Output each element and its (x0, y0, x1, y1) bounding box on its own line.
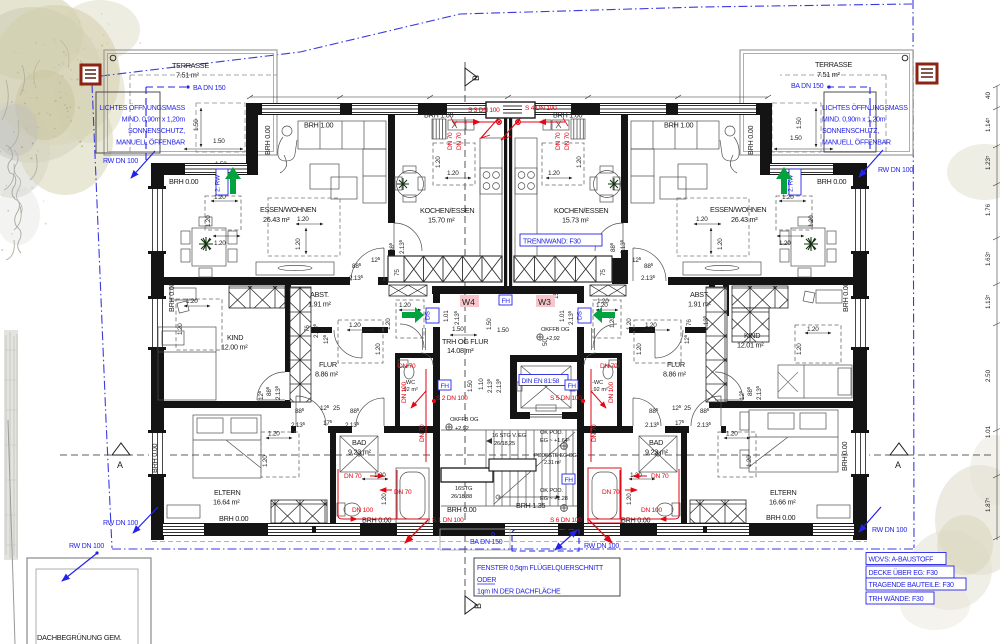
svg-text:1.23⁵: 1.23⁵ (985, 155, 992, 170)
svg-text:DN 70: DN 70 (447, 132, 454, 150)
bathtub left (396, 468, 429, 523)
door arc BAD right (633, 398, 661, 426)
dims W3 (553, 292, 616, 328)
svg-text:DN 70: DN 70 (555, 132, 562, 150)
svg-text:ABST.: ABST. (310, 290, 329, 299)
svg-text:1.91 m²: 1.91 m² (308, 300, 332, 309)
sofa left (298, 121, 386, 203)
wall ABST right vertical (723, 285, 729, 316)
svg-text:1qm IN DER DACHFLÄCHE: 1qm IN DER DACHFLÄCHE (477, 588, 561, 596)
elevator car (517, 366, 575, 411)
svg-text:1.50: 1.50 (213, 138, 225, 145)
svg-text:BRH 1.00: BRH 1.00 (424, 111, 453, 120)
wardrobe ELTERN left (271, 500, 327, 523)
svg-text:LICHTES ÖFFNUNGSMASS: LICHTES ÖFFNUNGSMASS (99, 104, 185, 112)
door arc kitchen right (595, 223, 623, 251)
svg-text:WDVS: A-BAUSTOFF: WDVS: A-BAUSTOFF (869, 557, 934, 564)
svg-text:1.20: 1.20 (626, 318, 633, 330)
svg-text:1.20: 1.20 (186, 298, 198, 305)
svg-text:26/18,25: 26/18,25 (494, 441, 515, 447)
DIN EN 81:58 box (519, 375, 568, 386)
sideboard left (256, 262, 334, 275)
svg-text:1.20: 1.20 (262, 455, 269, 467)
W4 highlight (460, 295, 479, 307)
svg-text:1.76: 1.76 (985, 203, 992, 216)
wardrobe ELTERN right (690, 500, 746, 523)
svg-text:ELTERN: ELTERN (214, 488, 240, 497)
svg-text:OKFFB OG: OKFFB OG (541, 327, 570, 333)
dims W4 (432, 287, 509, 334)
dims door ABST left (304, 323, 330, 344)
hedge left edge (4, 330, 18, 560)
dim bath right (626, 472, 655, 505)
svg-text:2.50: 2.50 (985, 369, 992, 382)
dresser ELTERN left (167, 505, 200, 518)
dim box FLUR right (634, 320, 681, 363)
section line A-A (60, 454, 992, 456)
wall top-left side (151, 163, 258, 175)
svg-text:KOCHEN/ESSEN: KOCHEN/ESSEN (420, 206, 474, 215)
railing crosshatch right (514, 256, 612, 282)
wall top-right side (760, 163, 867, 175)
svg-text:BRH 0.00: BRH 0.00 (362, 516, 391, 525)
svg-text:1.20: 1.20 (214, 240, 226, 247)
svg-text:BA DN 150: BA DN 150 (470, 539, 503, 546)
svg-text:S 2 DN 100: S 2 DN 100 (436, 395, 468, 402)
RW DN 100 top-right (859, 150, 913, 177)
dim box entry right (593, 300, 633, 338)
svg-text:15.70 m²: 15.70 m² (428, 216, 455, 225)
svg-text:1.50: 1.50 (486, 318, 493, 330)
svg-text:1.20: 1.20 (726, 431, 738, 438)
RW DN 100 bottom-left a (103, 507, 158, 533)
tree bottom-right (900, 435, 1000, 630)
tree right edge (947, 144, 1000, 200)
svg-text:FH: FH (502, 298, 511, 305)
svg-text:BRH 0.00: BRH 0.00 (169, 177, 198, 186)
svg-text:ESSEN/WOHNEN: ESSEN/WOHNEN (710, 205, 766, 214)
svg-text:W3: W3 (538, 297, 551, 307)
svg-text:TERRASSE: TERRASSE (815, 60, 852, 69)
svg-text:FLUR: FLUR (667, 360, 685, 369)
svg-text:1.20: 1.20 (205, 215, 212, 227)
TRENNWAND box (520, 234, 602, 246)
svg-text:DN 70: DN 70 (419, 424, 426, 442)
svg-text:1.20: 1.20 (435, 156, 442, 168)
svg-text:25: 25 (684, 405, 691, 412)
dims door living left (349, 256, 381, 282)
svg-text:1.20: 1.20 (548, 170, 560, 177)
toilet right (657, 503, 680, 516)
dims door KIND left (257, 385, 282, 400)
red pipes bath left (338, 469, 430, 543)
svg-text:S 4 DN 100: S 4 DN 100 (525, 105, 557, 112)
svg-text:FLUR: FLUR (319, 360, 337, 369)
entrance canopy below (440, 529, 510, 550)
wall core top (432, 286, 584, 294)
dachbegruenung rect bottom-left (8, 420, 151, 644)
red riser S5 right (581, 369, 606, 462)
svg-text:76: 76 (304, 325, 311, 332)
desk KIND left (170, 288, 196, 313)
dining set right (780, 217, 836, 277)
green arrow right-top (776, 167, 792, 194)
svg-text:1.20: 1.20 (626, 493, 633, 505)
svg-text:1.91 m²: 1.91 m² (688, 300, 712, 309)
door arc entry W4 (400, 324, 426, 350)
svg-text:1.20: 1.20 (576, 156, 583, 168)
door arc ELTERN right (691, 396, 721, 426)
sideboard right (683, 262, 761, 275)
dim box ELTERN left (261, 431, 299, 478)
svg-text:A: A (117, 460, 123, 470)
dims door kitchen right (609, 239, 627, 254)
dresser ELTERN right (817, 505, 850, 518)
terrace right (740, 50, 913, 155)
section marker A left (112, 443, 130, 470)
kitchen table right (590, 166, 621, 202)
BA DN 150 right (791, 83, 870, 150)
section line B (464, 62, 466, 608)
svg-text:1.20: 1.20 (746, 455, 753, 467)
svg-text:DIN EN 81:58: DIN EN 81:58 (522, 378, 560, 385)
svg-text:26.43 m²: 26.43 m² (263, 215, 290, 224)
svg-text:1.20: 1.20 (447, 170, 459, 177)
svg-text:8.86 m²: 8.86 m² (663, 370, 687, 379)
svg-text:76: 76 (686, 319, 693, 326)
svg-text:1.50: 1.50 (497, 327, 509, 334)
wall H1 left (164, 277, 350, 285)
svg-text:BRH 1.00: BRH 1.00 (664, 121, 693, 130)
svg-text:26.43 m²: 26.43 m² (731, 215, 758, 224)
svg-text:RW DN 100: RW DN 100 (69, 543, 104, 550)
RW DN 100 bottom-center (555, 530, 619, 550)
wall ABST left (311, 327, 332, 333)
svg-text:BRH 0.00: BRH 0.00 (621, 516, 650, 525)
desk KIND right (803, 290, 842, 303)
svg-text:RW DN 100: RW DN 100 (872, 527, 907, 534)
LICHTES block left (99, 104, 185, 147)
svg-text:9.23 m²: 9.23 m² (645, 448, 669, 457)
coffee tables left (310, 164, 357, 199)
svg-text:1.20: 1.20 (375, 343, 382, 355)
svg-text:16STG: 16STG (455, 486, 473, 492)
svg-text:DN 70: DN 70 (651, 473, 669, 480)
windows left wall (148, 186, 166, 477)
svg-text:SONNENSCHUTZ,: SONNENSCHUTZ, (822, 128, 879, 135)
window terrace door left (182, 163, 250, 175)
svg-text:FH: FH (568, 383, 577, 390)
stairs (441, 430, 577, 506)
green arrow left-center (402, 307, 424, 323)
svg-text:.92 m²: .92 m² (592, 387, 608, 393)
wall kitchen right (621, 115, 628, 223)
svg-text:1.20: 1.20 (385, 318, 392, 330)
RW DN 100 bottom-right (859, 507, 907, 534)
sofa right (631, 121, 719, 203)
svg-text:1.20: 1.20 (297, 216, 309, 223)
dim box kitchen right (542, 143, 584, 185)
svg-text:DN 70: DN 70 (602, 489, 620, 496)
room labels (213, 205, 796, 507)
svg-text:1.20: 1.20 (696, 216, 708, 223)
svg-text:ELTERN: ELTERN (770, 488, 796, 497)
hatch box right entry (590, 285, 626, 296)
bathtub right (588, 468, 621, 523)
WDVS boxes (866, 553, 966, 605)
svg-text:B: B (473, 603, 483, 609)
door arc entry W3 (592, 324, 618, 350)
dim box FLUR left (338, 320, 383, 363)
railing crosshatch left (229, 256, 788, 523)
wall center party (Trennwand) (504, 115, 507, 286)
door arc living-hall left (351, 248, 384, 281)
svg-text:1.20: 1.20 (349, 322, 361, 329)
tree top-left (0, 0, 140, 260)
svg-text:1.20: 1.20 (399, 302, 411, 309)
dim box ELTERN right (718, 431, 756, 478)
svg-text:15.73 m²: 15.73 m² (562, 216, 589, 225)
dims door living right (632, 256, 656, 282)
FENSTER box (474, 558, 620, 596)
wall exterior bottom (151, 523, 867, 536)
svg-text:B: B (471, 75, 481, 81)
wall KIND/ELTERN right (709, 401, 867, 408)
shower left (340, 436, 378, 472)
door arc KIND right (715, 372, 743, 400)
windows right wall (851, 186, 869, 477)
svg-text:BRH 0.00: BRH 0.00 (167, 283, 176, 312)
wall KIND/ELTERN left (151, 401, 291, 408)
svg-text:16 STG V. EG: 16 STG V. EG (492, 433, 527, 439)
svg-text:1.50: 1.50 (790, 135, 802, 142)
svg-text:TRH WÄNDE: F30: TRH WÄNDE: F30 (869, 595, 924, 603)
svg-text:1.01: 1.01 (443, 310, 450, 322)
svg-text:1.20: 1.20 (597, 298, 609, 305)
closet KIND right (732, 286, 788, 308)
svg-text:ODER: ODER (477, 577, 496, 584)
wall KIND/FLUR right (709, 285, 715, 372)
svg-text:RW DN 100: RW DN 100 (103, 158, 138, 165)
svg-text:BRH 0.00: BRH 0.00 (817, 177, 846, 186)
svg-text:LICHTES ÖFFNUNGSMASS: LICHTES ÖFFNUNGSMASS (822, 104, 908, 112)
wall bump-right vertical (760, 103, 772, 175)
dim box KIND left (176, 298, 222, 350)
svg-text:75: 75 (600, 269, 607, 276)
property boundary right (913, 0, 914, 548)
svg-text:A: A (895, 460, 901, 470)
svg-text:DS: DS (425, 310, 432, 320)
svg-text:W4: W4 (462, 297, 475, 307)
svg-text:1.13⁵: 1.13⁵ (985, 294, 992, 309)
LICHTES block right (822, 104, 908, 147)
svg-text:16.66 m²: 16.66 m² (769, 498, 796, 507)
svg-text:DN 100: DN 100 (641, 507, 662, 514)
svg-text:25: 25 (333, 405, 340, 412)
svg-text:DS: DS (577, 310, 584, 320)
dim box living-left center (268, 198, 340, 256)
svg-text:50: 50 (542, 339, 549, 346)
wall kitchen left (388, 115, 395, 223)
svg-text:BRH 1.00: BRH 1.00 (304, 121, 333, 130)
svg-text:ESSEN/WOHNEN: ESSEN/WOHNEN (260, 205, 316, 214)
svg-text:BRH 0.00: BRH 0.00 (263, 126, 272, 155)
green arrow left-top (225, 167, 241, 194)
svg-text:16.64 m²: 16.64 m² (213, 498, 240, 507)
svg-text:1.20: 1.20 (636, 343, 643, 355)
red pipes top center (451, 114, 568, 140)
windows bottom wall (160, 523, 857, 536)
dim box living-right top (776, 194, 815, 247)
svg-text:1.14⁵: 1.14⁵ (985, 117, 992, 132)
gully symbol left (81, 65, 100, 84)
shaft box top center (486, 102, 535, 118)
svg-text:75: 75 (394, 269, 401, 276)
door arc ABST left (334, 330, 362, 358)
svg-text:BA DN 150: BA DN 150 (791, 83, 824, 90)
wall ABST right (629, 327, 655, 333)
red riser S2 left (411, 369, 436, 462)
svg-text:DN 70: DN 70 (344, 473, 362, 480)
section marker A right (890, 443, 908, 470)
wall KIND/FLUR left (285, 285, 291, 372)
dims doors bath row left (291, 404, 360, 429)
dims door ABST right (683, 315, 710, 344)
wall core right vertical (577, 294, 584, 303)
property boundary top (101, 4, 912, 76)
svg-text:BA DN 150: BA DN 150 (193, 85, 226, 92)
svg-text:DACHBEGRÜNUNG GEM.: DACHBEGRÜNUNG GEM. (37, 633, 122, 642)
property boundary bottom (112, 548, 914, 550)
coffee tables right (660, 164, 707, 199)
svg-text:DECKE ÜBER EG: F30: DECKE ÜBER EG: F30 (869, 569, 938, 577)
svg-text:RW DN 100: RW DN 100 (103, 520, 138, 527)
svg-text:1.20: 1.20 (796, 343, 803, 355)
kitchen counter right (515, 119, 585, 256)
right edge dimension chain (993, 84, 1000, 540)
svg-text:TRENNWAND: F30: TRENNWAND: F30 (523, 239, 581, 246)
window terrace door right (767, 163, 836, 175)
svg-text:MIND. 0,90m x 1,20m: MIND. 0,90m x 1,20m (122, 117, 186, 124)
wall H1 right (668, 277, 854, 285)
WC left fixtures (398, 353, 433, 379)
svg-text:OK POD.: OK POD. (540, 488, 563, 494)
plant star right dining (804, 237, 818, 251)
svg-text:1.20: 1.20 (807, 326, 819, 333)
top dim line (247, 95, 771, 99)
WC right fixtures (584, 353, 619, 379)
svg-text:12.00 m²: 12.00 m² (221, 343, 248, 352)
toilet left (337, 503, 360, 516)
svg-text:RW DN 100: RW DN 100 (878, 167, 913, 174)
wall ELTERN/BAD left (330, 433, 336, 523)
svg-text:-WC: -WC (592, 380, 603, 386)
FH boxes (438, 295, 578, 484)
roof window bracket left (96, 92, 160, 153)
svg-text:1.50: 1.50 (193, 119, 200, 131)
svg-text:S 1 DN 100: S 1 DN 100 (432, 517, 464, 524)
wall core left vertical (433, 294, 440, 303)
svg-text:1.01: 1.01 (559, 310, 566, 322)
dim box entry left (385, 300, 424, 338)
green arrow right-center (593, 307, 615, 323)
svg-text:BAD: BAD (352, 438, 366, 447)
2.RW boxes (215, 169, 802, 195)
dim box kitchen left (433, 143, 475, 185)
svg-text:1.63⁵: 1.63⁵ (985, 251, 992, 266)
svg-text:BRH 1.00: BRH 1.00 (553, 111, 582, 120)
svg-text:1.10: 1.10 (478, 378, 485, 390)
svg-text:DN 70: DN 70 (394, 489, 412, 496)
svg-text:1.20: 1.20 (268, 431, 280, 438)
svg-text:1.20: 1.20 (645, 322, 657, 329)
svg-text:BAD: BAD (649, 438, 663, 447)
dim box KIND right (795, 325, 841, 363)
svg-text:DN 70: DN 70 (600, 363, 618, 370)
DS boxes (425, 308, 592, 323)
svg-text:SONNENSCHUTZ,: SONNENSCHUTZ, (128, 128, 185, 135)
svg-text:DN 70: DN 70 (564, 132, 571, 150)
svg-text:1.20: 1.20 (381, 493, 388, 505)
dining set left (181, 217, 237, 277)
svg-text:OKFFB OG: OKFFB OG (450, 417, 479, 423)
door arc living-hall right (633, 248, 666, 281)
svg-text:KIND: KIND (744, 331, 760, 340)
stair wall spur (441, 468, 493, 482)
door arc ABST right (655, 330, 683, 358)
svg-text:DN 70: DN 70 (398, 363, 416, 370)
wall bump-left vertical (246, 103, 258, 175)
hatch box left entry (389, 285, 427, 296)
svg-text:2. RW: 2. RW (215, 174, 222, 192)
svg-text:S 5 DN 100: S 5 DN 100 (550, 395, 582, 402)
section marker B top (465, 68, 481, 86)
svg-text:9.23 m²: 9.23 m² (348, 448, 372, 457)
svg-text:1.20: 1.20 (779, 240, 791, 247)
svg-text:1.20: 1.20 (808, 215, 815, 227)
dims door kitchen left (388, 239, 406, 254)
svg-text:1.87⁵: 1.87⁵ (985, 497, 992, 512)
bed ELTERN left (193, 415, 261, 478)
dims doors bath row right (645, 404, 712, 429)
red pipes bath right (587, 468, 679, 543)
landing edge (489, 459, 536, 471)
svg-text:FH: FH (441, 383, 450, 390)
svg-text:MANUELL ÖFFENBAR: MANUELL ÖFFENBAR (822, 139, 891, 147)
svg-text:PODESTE EG-OG: PODESTE EG-OG (534, 453, 577, 459)
dims door KIND right (738, 385, 763, 400)
svg-text:1.20: 1.20 (295, 238, 302, 250)
svg-text:DN 100: DN 100 (401, 382, 408, 403)
RW DN 100 top-left (103, 151, 155, 178)
svg-text:MIND. 0,90m x 1,20m: MIND. 0,90m x 1,20m (822, 117, 886, 124)
svg-text:BRH 0.00: BRH 0.00 (150, 444, 159, 473)
svg-text:KOCHEN/ESSEN: KOCHEN/ESSEN (554, 206, 608, 215)
svg-text:MANUELL ÖFFENBAR: MANUELL ÖFFENBAR (116, 139, 185, 147)
wall WC right (584, 353, 622, 358)
svg-text:DN 100: DN 100 (352, 507, 373, 514)
svg-text:BRH 0.00: BRH 0.00 (447, 505, 476, 514)
svg-text:BRH 0.00: BRH 0.00 (766, 513, 795, 522)
svg-text:7.51 m²: 7.51 m² (817, 70, 841, 79)
wall top bump (246, 103, 772, 115)
svg-text:DN 70: DN 70 (591, 424, 598, 442)
roof window bracket right (824, 92, 876, 152)
roof overhang dashed (152, 541, 867, 543)
wall ELTERN/BAD right (681, 433, 687, 523)
door arc KIND left (257, 372, 285, 400)
svg-text:BRH 1.35: BRH 1.35 (516, 501, 545, 510)
